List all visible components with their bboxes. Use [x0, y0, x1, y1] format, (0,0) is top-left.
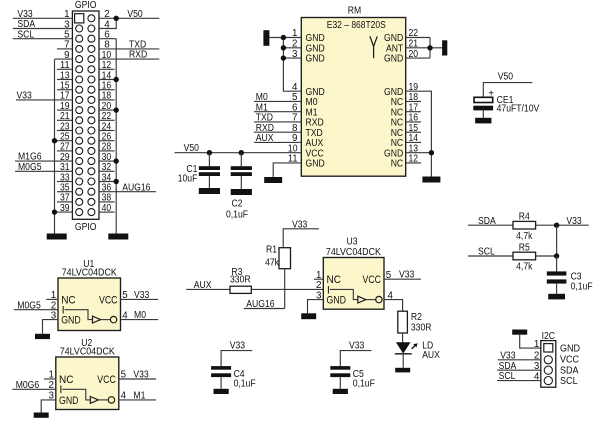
inverter U3 label [347, 236, 358, 247]
svg-text:M0G6: M0G6 [16, 380, 40, 391]
svg-text:SDA: SDA [560, 365, 579, 376]
junction dot R4/V33 [554, 223, 559, 228]
capacitor CE1 (electrolytic) [473, 88, 494, 118]
svg-text:47k: 47k [265, 257, 279, 268]
node V33 (R4) [566, 216, 582, 227]
value 47uFT/10V [497, 104, 540, 115]
resistor R2 [398, 311, 408, 333]
inverter U2 label [81, 338, 92, 349]
ground (GPIO left) [47, 234, 67, 240]
GPIO pin pads (circles) [76, 15, 95, 216]
GPIO even pin stubs [99, 39, 116, 212]
ground (C1) [199, 188, 220, 194]
node V50 (pin2) [127, 9, 143, 20]
wire rail RM pins 1-2-3-4 [283, 38, 301, 92]
junction dot V50/pin2/pin4 [114, 16, 119, 21]
U3 inverter gate symbol [330, 289, 382, 303]
svg-text:AUX: AUX [194, 280, 212, 291]
svg-text:SDA: SDA [478, 216, 496, 227]
wire R2 to LED [402, 333, 404, 343]
ground (U2) [34, 413, 49, 418]
I2C right pin names [560, 343, 580, 386]
node V33 (U2) [133, 369, 149, 380]
svg-text:V33: V33 [17, 91, 33, 102]
svg-text:V33: V33 [133, 369, 149, 380]
wire SCL to GPIO pin 5 [13, 38, 73, 40]
node V33 (R1) [292, 219, 308, 230]
wire RM pin13 stub to rail [406, 152, 432, 154]
node RXD (RM) [256, 123, 274, 134]
inverter U1 body [58, 278, 121, 331]
junction dot RM pin1 [281, 35, 286, 40]
svg-text:0,1uF: 0,1uF [353, 379, 375, 390]
svg-text:SCL: SCL [478, 247, 495, 258]
wire V33 to GPIO pin 1 [13, 17, 73, 19]
svg-text:V33: V33 [566, 216, 582, 227]
ground (CE1) [475, 118, 491, 124]
wire M0G5 to U1 pin2 [14, 309, 58, 311]
junction dot pin 20 [114, 107, 119, 112]
wire M0G6 to U2 pin2 [12, 388, 56, 390]
svg-text:74LVC04DCK: 74LVC04DCK [326, 247, 381, 258]
svg-text:NC: NC [391, 159, 404, 170]
svg-text:R4: R4 [519, 212, 530, 223]
svg-text:V33: V33 [500, 350, 516, 361]
label R1 [266, 245, 277, 256]
wire V50 from GPIO pin 2 [99, 17, 159, 19]
RM left pin names [306, 33, 325, 169]
connector GPIO body [72, 0, 99, 233]
svg-text:GND: GND [59, 395, 79, 407]
node AUX (R3) [194, 280, 212, 291]
node TXD (pin8) [129, 40, 146, 51]
wire U3 pin3 to ground [308, 300, 324, 314]
wire R3 to U3 pin2 [251, 288, 323, 290]
node V33 (I2C) [500, 350, 516, 361]
junction dot RM pin21/antenna [427, 45, 432, 50]
wire RXD to RM pin8 [254, 131, 301, 133]
wire rail RM pins 22-21-20 [406, 38, 442, 59]
wire V50 (CE1) [483, 83, 532, 98]
value 330R (R3) [230, 275, 251, 286]
svg-text:V50: V50 [127, 9, 143, 20]
svg-text:74LVC04DCK: 74LVC04DCK [62, 268, 117, 279]
GPIO right ground rail (pin 6 down) [115, 39, 117, 234]
svg-text:330R: 330R [230, 275, 251, 286]
junction dot pin 39 [52, 209, 57, 214]
capacitor C2 [231, 153, 252, 189]
svg-text:AUX: AUX [256, 133, 274, 144]
junction dot pin 14 [114, 77, 119, 82]
wire V33 (C5) [340, 351, 371, 367]
label AUX (LED) [422, 350, 440, 361]
GPIO left ground rail (pins 9,25,39) [54, 59, 56, 233]
wire AUX to R3 [186, 288, 230, 290]
ground (C4) [214, 389, 229, 394]
svg-text:AUX: AUX [422, 350, 440, 361]
wire V50 to RM pin10 (VCC) [175, 152, 302, 154]
wire AUG16 from GPIO pin 36 [99, 191, 156, 193]
svg-text:SCL: SCL [499, 371, 516, 382]
RM antenna symbol [370, 36, 377, 58]
node M0G5 [17, 300, 41, 311]
ground (U1) [35, 334, 50, 339]
ground bar (RM pins 1-3, vertical) [263, 30, 269, 46]
junction dot pin 30 [114, 158, 119, 163]
wire U1 pin3 to ground [43, 320, 59, 334]
value 0,1uF (C3) [571, 281, 593, 292]
LED arrow [412, 343, 418, 349]
node M0G5 [18, 162, 42, 173]
node SCL (R5) [478, 247, 495, 258]
svg-text:R1: R1 [266, 245, 277, 256]
svg-text:AUG16: AUG16 [122, 182, 151, 193]
ground (RM pin11) [264, 177, 282, 183]
wire M0G5 to GPIO pin 31 [15, 170, 72, 172]
node SDA (I2C) [499, 361, 517, 372]
svg-text:4,7k: 4,7k [516, 262, 532, 273]
node V33 (U1) [134, 290, 150, 301]
svg-text:M1: M1 [133, 390, 145, 401]
node V33 (pin1) [17, 9, 33, 20]
U2 part number 74LVC04DCK [60, 347, 115, 358]
junction dot C2/V50 [239, 150, 244, 155]
wire SCL to I2C pin4 [497, 380, 541, 382]
wire V33 to I2C pin2 [498, 359, 541, 361]
resistor R3 [230, 286, 251, 293]
antenna terminal bar (vertical) [442, 40, 447, 55]
svg-text:GND: GND [306, 159, 325, 170]
wire GPIO pin 4 to V50 [99, 18, 116, 28]
label C1 [186, 164, 197, 175]
U2 inverter gate symbol [62, 389, 114, 403]
svg-text:GND: GND [306, 54, 325, 65]
svg-text:C2: C2 [232, 199, 243, 210]
node M1G6 [18, 152, 42, 163]
GPIO odd pin numbers [60, 9, 70, 214]
wire V33 (C4) [221, 351, 252, 367]
node M0 [256, 92, 268, 103]
svg-text:V50: V50 [498, 71, 514, 82]
node SDA (pin3) [17, 19, 35, 30]
svg-text:M0G5: M0G5 [18, 162, 42, 173]
capacitor C1 [199, 153, 220, 188]
node M0G6 [16, 380, 40, 391]
node SCL (pin5) [17, 29, 34, 40]
svg-text:M0G5: M0G5 [17, 300, 41, 311]
ground (I2C pin1) [512, 330, 527, 335]
value 0,1uF (C5) [353, 379, 375, 390]
wire AUX to RM pin9 [254, 141, 301, 143]
wire U2 pin1 stub [44, 378, 56, 380]
label R2 [411, 312, 422, 323]
wire U1 pin4 to M0 [121, 319, 159, 321]
label C3 [571, 271, 582, 282]
node V33 (U3) [399, 270, 415, 281]
svg-text:SDA: SDA [499, 361, 517, 372]
LED LD (AUX indicator) [395, 342, 412, 368]
ground (LED) [395, 368, 410, 373]
GPIO even pin numbers [102, 9, 112, 214]
svg-text:0,1uF: 0,1uF [234, 379, 256, 390]
wire RM pin2 stub [283, 47, 301, 49]
resistor R1 [279, 248, 291, 269]
svg-text:VCC: VCC [99, 294, 118, 306]
wire U3 pin1 stub [314, 278, 324, 280]
junction dot C1/V50 [207, 150, 212, 155]
node V50 (RM) [184, 143, 200, 154]
value 0,1uF (C4) [234, 379, 256, 390]
GPIO odd pin stubs [55, 49, 73, 212]
svg-text:GPIO: GPIO [75, 0, 97, 11]
I2C pin 1 square pad [544, 344, 553, 352]
value 0,1uF (C2) [226, 210, 248, 221]
svg-text:VCC: VCC [560, 355, 580, 366]
svg-text:V33: V33 [292, 219, 308, 230]
svg-text:0,1uF: 0,1uF [571, 281, 593, 292]
svg-text:RM: RM [348, 6, 361, 17]
wire SDA to R4 [468, 224, 513, 226]
label R5 [519, 242, 530, 253]
svg-text:1: 1 [534, 339, 539, 350]
node AUG16 (U3) [246, 299, 275, 310]
svg-text:V33: V33 [399, 270, 415, 281]
inverter U1 label [83, 259, 94, 270]
U2 pin numbers [49, 370, 127, 402]
svg-text:V33: V33 [349, 340, 365, 351]
capacitor C3 [547, 256, 567, 294]
svg-text:SCL: SCL [17, 29, 34, 40]
junction dot pin 25 [52, 138, 57, 143]
wire M0 to RM pin5 [254, 100, 301, 102]
resistor R4 [513, 221, 536, 229]
wire TXD from GPIO pin 8 [99, 48, 159, 50]
U1 inverter gate symbol [65, 310, 117, 323]
label LD [422, 340, 433, 351]
svg-text:SCL: SCL [560, 376, 578, 387]
resistor R5 [513, 252, 536, 260]
wire U2 pin3 to ground [41, 400, 56, 413]
RM right pin numbers 22-12 [409, 28, 419, 164]
wire TXD to RM pin7 [254, 121, 301, 123]
module RM label [348, 6, 361, 17]
RM NC pin stubs (18-14,12) [406, 101, 421, 163]
node V33 (pin17) [17, 91, 33, 102]
node V33 (C5) [349, 340, 365, 351]
wire V33 to R1 [283, 229, 319, 248]
node SDA (R4) [478, 216, 496, 227]
node RXD (pin10) [129, 50, 147, 61]
wire SCL to R5 [468, 255, 513, 257]
connector I2C body [541, 331, 556, 387]
junction dot RM pin2 [281, 45, 286, 50]
RM left pin numbers 1-11 [288, 28, 298, 164]
ground (RM right) [422, 177, 440, 183]
wire R5 to junction [536, 255, 557, 257]
svg-text:GND: GND [327, 295, 347, 307]
I2C pin pads [544, 356, 552, 385]
U3 pin numbers [316, 270, 393, 301]
svg-text:VCC: VCC [97, 374, 116, 386]
svg-text:47uFT/10V: 47uFT/10V [497, 104, 540, 115]
label C2 [232, 199, 243, 210]
junction dot R5/C3 [554, 253, 559, 258]
inverter U3 body [323, 258, 384, 310]
node V33 (C4) [230, 340, 246, 351]
wire RM pin11 to ground [273, 163, 301, 177]
svg-text:E32 – 868T20S: E32 – 868T20S [327, 20, 386, 31]
svg-text:R2: R2 [411, 312, 422, 323]
I2C pin numbers [534, 339, 540, 383]
svg-text:AUG16: AUG16 [246, 299, 275, 310]
ground (U3) [301, 313, 316, 319]
node M1 [256, 102, 268, 113]
svg-text:V33: V33 [230, 340, 246, 351]
wire SDA to I2C pin3 [497, 369, 541, 371]
junction dot RM pin3 [281, 55, 286, 60]
value 330R (R2) [411, 323, 432, 334]
svg-text:M0: M0 [134, 310, 146, 321]
wire RM pin3 stub [283, 57, 301, 59]
U3 part number 74LVC04DCK [326, 247, 381, 258]
svg-text:GND: GND [384, 54, 403, 65]
label C4 [234, 369, 245, 380]
junction dot RM pin13 [429, 150, 434, 155]
GPIO pin 1 square pad [75, 14, 84, 23]
wire V33 rail R4-R5 [556, 225, 558, 256]
label C5 [353, 369, 364, 380]
label CE1 [497, 95, 514, 106]
capacitor C5 [330, 366, 350, 389]
wire RM pin1 to ground bar [269, 37, 301, 39]
node M1 [133, 390, 145, 401]
wire U3 pin5 to V33 [384, 278, 421, 280]
wire U1 pin5 to V33 [121, 298, 159, 300]
U1 pin names [61, 294, 117, 326]
svg-text:V50: V50 [184, 143, 200, 154]
wire RM pin19 to ground rail [406, 91, 432, 176]
svg-text:VCC: VCC [363, 274, 382, 286]
svg-text:V33: V33 [134, 290, 150, 301]
svg-text:GND: GND [560, 343, 580, 354]
value 4,7k (R4) [516, 231, 532, 242]
svg-text:R5: R5 [519, 242, 530, 253]
wire U3 pin4 to R2 [384, 300, 403, 312]
wire M1 to RM pin6 [254, 111, 301, 113]
ground (C3) [548, 294, 565, 300]
U1 pin numbers [51, 290, 129, 321]
U2 pin names [59, 374, 116, 407]
node AUG16 (pin36) [122, 182, 151, 193]
inverter U2 body [56, 357, 119, 410]
svg-text:330R: 330R [411, 323, 432, 334]
node TXD (RM) [256, 113, 273, 124]
capacitor C4 [211, 366, 231, 389]
wire M1G6 to GPIO pin 29 [15, 160, 72, 162]
ground (C2) [231, 189, 252, 195]
wire RXD from GPIO pin 10 [99, 58, 159, 60]
svg-text:GND: GND [61, 315, 81, 327]
value 47k [265, 257, 279, 268]
svg-text:U3: U3 [347, 236, 358, 247]
node SCL (I2C) [499, 371, 516, 382]
wire I2C pin1 to ground [520, 335, 541, 348]
wire U2 pin4 to M1 [119, 399, 156, 401]
label R4 [519, 212, 530, 223]
U1 part number 74LVC04DCK [62, 268, 117, 279]
wire V33 to GPIO pin 17 [16, 99, 72, 101]
svg-text:74LVC04DCK: 74LVC04DCK [60, 347, 115, 358]
wire R4 to V33 [536, 224, 589, 226]
svg-text:RXD: RXD [129, 50, 147, 61]
node M0 [134, 310, 146, 321]
RM right pin names [384, 33, 403, 169]
label R3 [231, 267, 242, 278]
svg-text:GPIO: GPIO [75, 222, 97, 233]
svg-text:4,7k: 4,7k [516, 231, 532, 242]
node V50 (CE1) [498, 71, 514, 82]
wire SDA to GPIO pin 3 [13, 28, 73, 30]
wire U1 pin1 stub [46, 298, 58, 300]
value 10uF [178, 173, 198, 184]
wire U2 pin5 to V33 [119, 378, 156, 380]
svg-text:0,1uF: 0,1uF [226, 210, 248, 221]
svg-text:10uF: 10uF [178, 173, 198, 184]
value 4,7k (R5) [516, 262, 532, 273]
node AUX (RM) [256, 133, 274, 144]
ground (C5) [333, 389, 348, 394]
wire R1 to AUG16 line [284, 269, 286, 309]
wire AUG16 segment [244, 308, 285, 310]
ground (GPIO right) [108, 234, 128, 240]
junction dot pin 34 [114, 179, 119, 184]
U3 pin names [327, 274, 382, 306]
module RM (E32-868T20S) body [301, 18, 405, 177]
